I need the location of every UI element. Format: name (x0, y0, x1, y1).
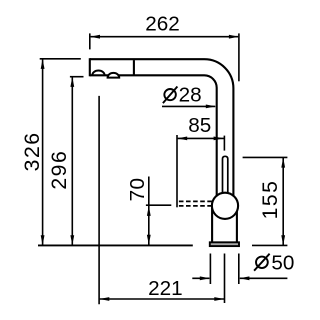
dimension ø50: left arrow shaft (192, 277, 209, 279)
dimension 155: bottom arrowhead (281, 235, 285, 245)
lever sphere joint (212, 193, 238, 219)
dimension 262: extension line right (238, 33, 240, 81)
faucet centerline extension below base (224, 254, 226, 304)
svg-text:28: 28 (179, 84, 202, 107)
lever handle hidden (dashed) upper line (178, 200, 212, 202)
dimension 296: bottom arrowhead (70, 235, 74, 245)
base flange (210, 242, 239, 246)
faucet spout arm bottom edge + inner elbow + left downtube (90, 75, 217, 207)
dimension ø50: right arrow shaft (240, 277, 288, 279)
faucet spout tip left edge (89, 58, 91, 76)
dimension 296: top arrowhead (70, 77, 74, 87)
faucet spout arm outer contour (top edge + elbow + right downtube) (90, 59, 234, 207)
dimension 85: dimension line (178, 137, 225, 139)
dimension ø50: left arrowhead (200, 276, 210, 280)
dimension ø50: diameter symbol (254, 254, 270, 271)
dimension 326: extension line top (40, 58, 81, 60)
dimension 326: dimension line (42, 59, 44, 245)
dimension ø28: arrowhead (206, 105, 216, 109)
svg-text:70: 70 (126, 178, 149, 202)
dimension 155: dimension line (282, 158, 284, 245)
dimension 262: right arrowhead (229, 35, 239, 39)
dimension 85: extension line left (176, 135, 178, 207)
dimension ø28: diameter symbol (163, 87, 178, 104)
dimension 70: dimension line (148, 177, 150, 245)
dimension 296: extension line top (70, 76, 84, 78)
body cylinder right edge (236, 208, 238, 242)
dimension 155: extension line bottom (252, 244, 287, 246)
dimension 85: left arrowhead (177, 137, 187, 141)
svg-text:155: 155 (259, 180, 282, 220)
dimension 296: dimension line (71, 77, 73, 245)
aerator bump 1 (92, 70, 104, 75)
dimension 221: dimension line (100, 298, 224, 300)
svg-text:50: 50 (271, 252, 294, 275)
dimension 155: top arrowhead (281, 158, 285, 168)
dimension 221: left arrowhead (99, 297, 109, 301)
dimension 221: right arrowhead (214, 297, 224, 301)
aerator bump 2 (spray outlet) (108, 73, 120, 78)
dimension 70: up arrowhead (147, 206, 151, 216)
body cylinder left edge (211, 208, 213, 242)
svg-text:221: 221 (148, 277, 183, 300)
dimension 262: dimension line (91, 36, 239, 38)
dimension ø50: right arrowhead (239, 276, 249, 280)
pull-out hose (223, 156, 228, 207)
spray head seam divider (133, 60, 135, 74)
dimension 221: extension line left (outlet centerline) (98, 96, 100, 304)
dimension 70: extension line top (handle axis) (146, 204, 171, 206)
dimension 262: extension line left (89, 33, 91, 49)
dimension 85: extension tick right (tube centerline) (223, 136, 225, 151)
dimension ø50: extension line left (209, 254, 211, 285)
dimension ø50: extension line right (238, 254, 240, 285)
dimension 262: left arrowhead (90, 35, 100, 39)
dimension 326: bottom arrowhead (41, 235, 45, 245)
dimension 70: down arrowhead (147, 235, 151, 245)
svg-text:296: 296 (48, 150, 71, 190)
dimension 155: extension line top (243, 156, 288, 158)
countertop line (38, 244, 193, 246)
lever handle hidden (dashed) lower line (178, 205, 212, 207)
svg-text:262: 262 (145, 12, 180, 35)
dimension 85: right arrowhead (214, 137, 224, 141)
svg-text:85: 85 (188, 114, 211, 137)
dimension ø28: leader line (162, 105, 215, 107)
svg-text:326: 326 (21, 131, 44, 171)
dimension 326: top arrowhead (41, 59, 45, 69)
